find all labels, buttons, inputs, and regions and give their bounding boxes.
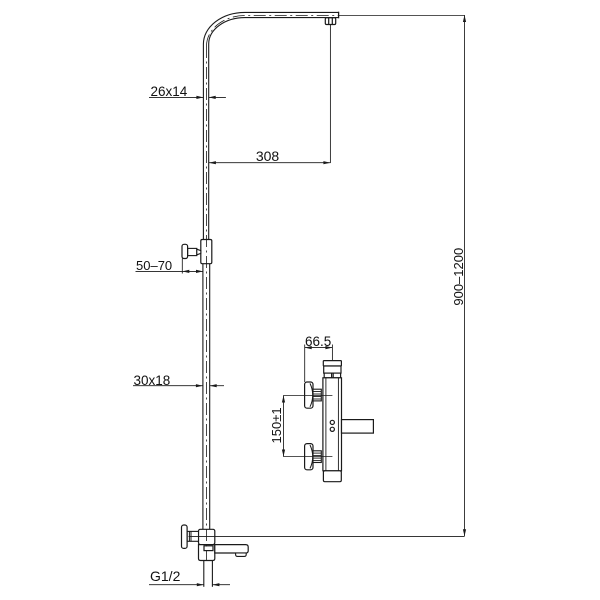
svg-text:30x18: 30x18 — [134, 373, 171, 388]
svg-text:26x14: 26x14 — [151, 84, 188, 99]
mixer valve bottom cap — [323, 471, 341, 482]
mixer body screws — [330, 420, 334, 424]
spout arm — [215, 545, 248, 553]
handle centerline top — [283, 395, 332, 397]
top handle flange — [305, 382, 313, 408]
dim G1/2 — [149, 584, 230, 586]
svg-text:150±1: 150±1 — [269, 407, 284, 443]
dim 26x14 — [149, 96, 226, 98]
riser pipe lower tube (30x18) — [203, 264, 210, 530]
dim 900-1200 — [464, 15, 466, 536]
mixer outlet pipe — [342, 420, 374, 434]
slider bracket taper — [197, 249, 201, 255]
svg-text:308: 308 — [256, 148, 280, 164]
mixer valve top cap — [323, 361, 341, 374]
mixer valve body — [323, 378, 342, 471]
slider bracket knob flange — [182, 244, 188, 258]
svg-text:900–1200: 900–1200 — [451, 248, 466, 306]
dim 50-70 — [136, 259, 204, 274]
bottom handle stem — [313, 451, 321, 463]
top extension line — [339, 15, 465, 17]
shower head connector nut — [325, 18, 335, 25]
bottom handle flange — [305, 444, 313, 470]
handle centerline bottom — [283, 456, 332, 458]
spout holder inner rect — [204, 546, 213, 551]
wall union block (bottom) — [199, 529, 215, 544]
wall union stem — [187, 531, 198, 541]
dim 66.5 — [305, 345, 333, 383]
bottom inlet pipe G1/2 — [204, 561, 213, 587]
slider bracket knob stem — [188, 248, 197, 255]
riser centerline — [207, 16, 339, 561]
riser pipe upper tube (26x14) — [203, 12, 338, 239]
dim 30x18 — [133, 385, 224, 387]
top handle stem — [313, 389, 321, 401]
bottom extension line — [189, 535, 465, 537]
mixer valve nut band — [324, 373, 340, 378]
spout aerator lip — [236, 553, 247, 556]
shower arm end cap — [338, 12, 340, 19]
slider bracket block — [201, 240, 212, 264]
svg-text:G1/2: G1/2 — [150, 568, 181, 584]
svg-text:66.5: 66.5 — [305, 334, 331, 349]
svg-text:50–70: 50–70 — [136, 258, 172, 273]
wall union knob flange — [182, 525, 188, 548]
dim 150±1 — [283, 396, 285, 457]
spout holder block — [199, 545, 215, 561]
dim 308 — [209, 25, 331, 164]
